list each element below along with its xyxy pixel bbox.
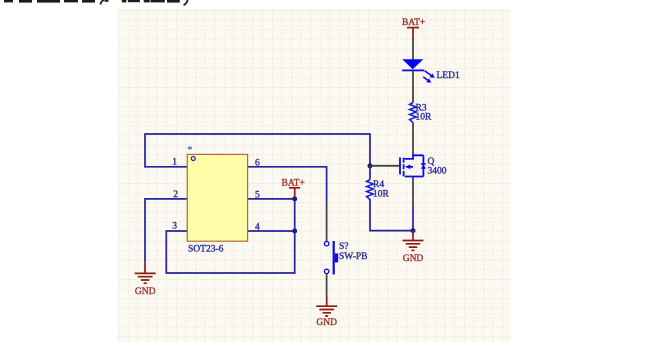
svg-text:6: 6 (255, 158, 260, 168)
svg-text:3: 3 (172, 222, 177, 232)
svg-text:3400: 3400 (428, 167, 447, 177)
svg-text:10R: 10R (373, 190, 390, 200)
svg-text:BAT+: BAT+ (282, 178, 305, 188)
svg-text:2: 2 (173, 190, 178, 200)
svg-text:10R: 10R (416, 113, 433, 123)
svg-text:R4: R4 (373, 180, 384, 190)
svg-text:SOT23-6: SOT23-6 (188, 245, 224, 255)
svg-text:GND: GND (316, 318, 337, 328)
svg-text:GND: GND (403, 254, 424, 264)
svg-text:BAT+: BAT+ (402, 18, 425, 28)
svg-text:SW-PB: SW-PB (339, 252, 368, 262)
svg-text:5: 5 (255, 190, 260, 200)
svg-text:1: 1 (172, 158, 177, 168)
svg-text:4: 4 (255, 223, 260, 233)
svg-text:*: * (187, 145, 192, 156)
svg-text:S?: S? (339, 242, 349, 252)
svg-text:LED1: LED1 (437, 71, 460, 81)
svg-text:GND: GND (135, 287, 156, 297)
svg-text:Q: Q (428, 157, 435, 167)
